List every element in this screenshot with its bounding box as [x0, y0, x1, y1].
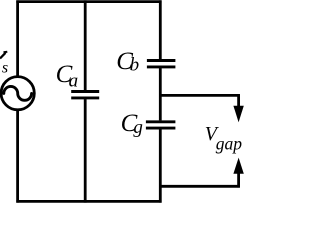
wire right lower (Cg bottom lead): [159, 129, 162, 202]
voltage source Vs (AC source circle): [1, 77, 34, 110]
arrowhead Vgap minus (up): [233, 158, 243, 174]
wire left upper (Vs top lead): [16, 0, 19, 77]
wire Vgap top arrow stem: [237, 94, 240, 108]
svg-text:g: g: [133, 117, 143, 138]
wire middle lower (Ca bottom lead): [84, 99, 87, 203]
wire top (node between Vs, Ca, Cb): [16, 0, 161, 3]
arrowhead Vgap plus (down): [233, 106, 243, 123]
wire left lower (Vs bottom lead): [16, 109, 19, 202]
wire middle upper (Ca top lead): [84, 0, 87, 90]
label Cg: [121, 110, 143, 138]
wire Vgap bottom arrow stem: [237, 172, 240, 188]
wire right upper (Cb top lead): [159, 0, 162, 59]
wire Vgap top tap: [160, 94, 240, 97]
capacitor Cg: [146, 122, 176, 128]
voltage source Vs sine symbol: [4, 86, 32, 100]
capacitor Cb: [147, 61, 176, 67]
label Vs: [0, 52, 8, 77]
svg-text:gap: gap: [216, 134, 243, 154]
wire right middle (node between Cb and Cg): [159, 68, 162, 120]
label Ca: [56, 61, 79, 91]
wire Vgap bottom tap: [160, 185, 240, 188]
svg-text:a: a: [69, 71, 79, 92]
label Vgap: [205, 123, 243, 154]
capacitor Ca: [71, 92, 99, 98]
label Cb: [116, 48, 139, 75]
svg-text:b: b: [130, 55, 140, 76]
svg-text:s: s: [2, 59, 8, 76]
wire bottom (node between Vs, Ca, Cg): [16, 200, 161, 203]
